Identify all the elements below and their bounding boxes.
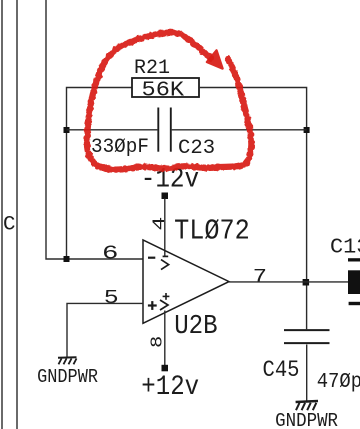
wire: R21 left lead and left feedback leg — [67, 88, 133, 260]
svg-text:C45: C45 — [263, 357, 300, 383]
wire: pin 8 supply — [164, 311, 166, 366]
svg-text:GNDPWR: GNDPWR — [37, 367, 98, 388]
svg-text:+12v: +12v — [141, 370, 199, 402]
svg-text:4: 4 — [150, 217, 170, 231]
wire: C23 right lead — [172, 129, 307, 131]
capacitor C45 — [284, 330, 330, 343]
junction left C23 — [64, 127, 70, 133]
ground GNDPWR right — [296, 401, 318, 410]
red annotation circle — [87, 32, 251, 169]
junction pin 7 — [303, 279, 310, 286]
inverting input mark — [148, 257, 155, 259]
svg-text:33ØpF: 33ØpF — [91, 136, 149, 158]
sheet border outer line — [16, 0, 18, 429]
component C13 body — [348, 270, 360, 294]
wire: pin 5 to ground — [67, 303, 143, 357]
non-inverting input mark — [148, 301, 157, 310]
capacitor C23 — [158, 108, 171, 152]
svg-text:C23: C23 — [178, 137, 215, 160]
svg-text:5: 5 — [104, 288, 119, 309]
svg-text:TLØ72: TLØ72 — [174, 215, 250, 248]
ground GNDPWR left — [58, 357, 77, 364]
red annotation arrowhead — [207, 51, 223, 69]
svg-text:47Øp: 47Øp — [317, 369, 360, 393]
wire: pin 7 output — [229, 281, 348, 283]
wire: pin 4 supply — [164, 199, 166, 257]
resistor R21 — [132, 78, 199, 97]
svg-text:C: C — [3, 214, 15, 237]
V+ marker — [160, 293, 169, 310]
power -12v terminal dot — [162, 193, 169, 200]
svg-text:GNDPWR: GNDPWR — [275, 410, 338, 429]
wire: bus drop to pin 6 — [46, 0, 143, 259]
sheet border inner line — [1, 0, 3, 429]
svg-text:6: 6 — [102, 243, 118, 265]
svg-text:8: 8 — [148, 336, 167, 348]
component C13 bottom lead — [349, 302, 360, 305]
svg-text:U2B: U2B — [174, 311, 217, 341]
svg-text:56K: 56K — [142, 77, 185, 102]
V- marker — [161, 256, 169, 269]
wire: C45 bottom lead — [306, 345, 308, 401]
wire: C23 left lead — [67, 129, 158, 131]
junction pin 6 — [64, 256, 70, 262]
svg-text:7: 7 — [253, 267, 267, 288]
component C13 top lead — [348, 258, 360, 261]
svg-text:C13: C13 — [330, 235, 360, 260]
power +12v terminal dot — [162, 365, 169, 372]
wire: R21 right lead and right feedback leg — [199, 88, 307, 330]
junction right C23 — [304, 127, 310, 133]
op-amp U2B — [143, 240, 229, 323]
